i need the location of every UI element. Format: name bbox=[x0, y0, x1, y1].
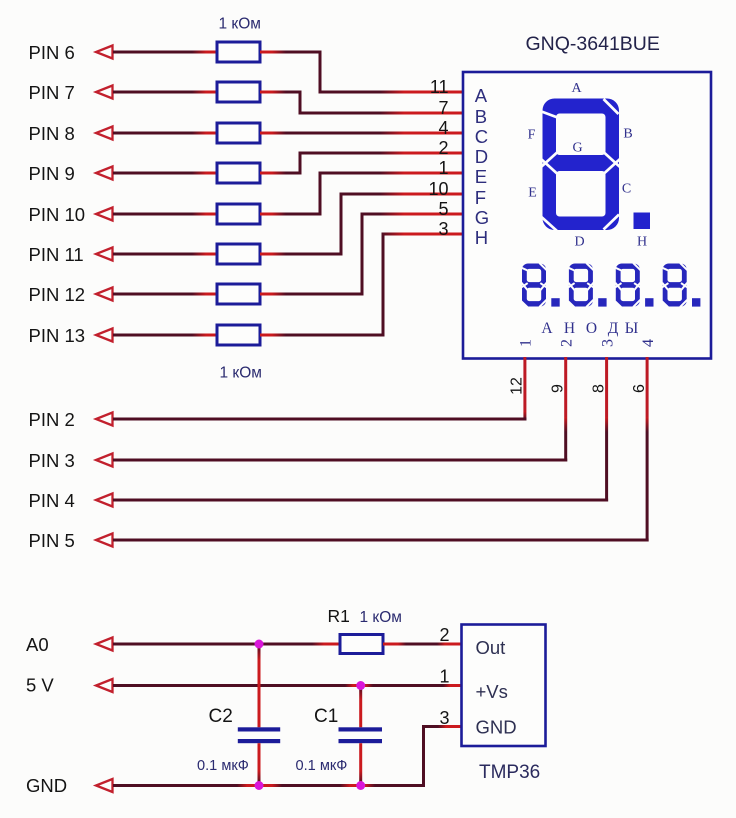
pin label PIN 8 bbox=[29, 123, 75, 144]
wire PIN 4 bbox=[113, 499, 608, 502]
svg-text:B: B bbox=[475, 106, 487, 127]
wire to display pin 10 (F) bbox=[340, 193, 464, 196]
pin number 6 (rotated) bbox=[631, 384, 648, 393]
svg-text:C2: C2 bbox=[209, 706, 233, 727]
wire vertical PIN 9 bbox=[299, 152, 302, 175]
wire A0 to junction bbox=[113, 643, 259, 646]
wire to display pin 1 (E) bbox=[319, 172, 464, 175]
label C1 bbox=[314, 706, 338, 727]
svg-text:1: 1 bbox=[518, 339, 535, 347]
svg-text:Д: Д bbox=[608, 320, 619, 337]
pin label PIN 12 bbox=[29, 284, 86, 305]
wire PIN 11 to corner bbox=[260, 253, 343, 256]
svg-text:11: 11 bbox=[430, 77, 449, 97]
pin number 11 bbox=[430, 77, 449, 97]
svg-text:Н: Н bbox=[564, 320, 575, 337]
svg-text:8: 8 bbox=[590, 384, 607, 393]
wire PIN 3 bbox=[113, 459, 567, 462]
svg-text:H: H bbox=[637, 235, 647, 250]
svg-text:PIN 3: PIN 3 bbox=[29, 450, 75, 471]
wire junction to R1 bbox=[259, 643, 340, 646]
svg-text:4: 4 bbox=[438, 118, 448, 138]
svg-text:GND: GND bbox=[26, 775, 67, 796]
svg-text:PIN 9: PIN 9 bbox=[29, 163, 75, 184]
svg-text:PIN 8: PIN 8 bbox=[29, 123, 75, 144]
decimal point H of big digit bbox=[634, 213, 651, 230]
wire to display pin 3 (H) bbox=[382, 233, 464, 236]
label C2 value bbox=[197, 758, 249, 774]
svg-text:Out: Out bbox=[476, 637, 506, 658]
wire GND to junctions bbox=[113, 784, 425, 787]
svg-text:2: 2 bbox=[438, 138, 448, 158]
segment label A bbox=[571, 81, 582, 96]
small 7-seg digit 2 bbox=[568, 263, 593, 307]
wire vertical PIN 13 bbox=[382, 233, 385, 337]
svg-text:C: C bbox=[475, 126, 488, 147]
display U1 GNQ-3641BUE title bbox=[526, 33, 660, 55]
arrow PIN 7 bbox=[96, 86, 113, 99]
pin number 3 bbox=[438, 219, 448, 239]
arrow GND bbox=[96, 779, 113, 792]
pin name Out bbox=[476, 637, 506, 658]
resistor 1 kOm row PIN 11 bbox=[217, 244, 260, 264]
wire PIN 11 to resistor bbox=[113, 253, 217, 256]
svg-text:F: F bbox=[475, 187, 486, 208]
anode index 4 (rotated) bbox=[640, 339, 657, 347]
svg-text:GNQ-3641BUE: GNQ-3641BUE bbox=[526, 33, 660, 55]
display pin letter H bbox=[475, 227, 488, 248]
pin label PIN 13 bbox=[29, 325, 86, 346]
anode index 1 (rotated) bbox=[518, 339, 535, 347]
IC U2 TMP36 body bbox=[462, 625, 546, 747]
wire PIN 13 to corner bbox=[260, 334, 385, 337]
label 1 kOm bottom bbox=[220, 365, 262, 382]
svg-text:5: 5 bbox=[438, 199, 448, 219]
svg-text:1: 1 bbox=[439, 667, 449, 687]
arrow PIN 11 bbox=[96, 248, 113, 261]
label C2 bbox=[209, 706, 233, 727]
wire to display pin 2 (D) bbox=[299, 152, 464, 155]
svg-text:PIN 13: PIN 13 bbox=[29, 325, 86, 346]
svg-text:+Vs: +Vs bbox=[476, 681, 508, 702]
svg-text:D: D bbox=[574, 235, 584, 250]
arrow A0 bbox=[96, 638, 113, 651]
svg-text:7: 7 bbox=[438, 98, 448, 118]
segment label C bbox=[622, 182, 631, 197]
7-segment digit body bbox=[541, 99, 621, 232]
small decimal point 1 bbox=[551, 298, 559, 306]
svg-text:F: F bbox=[528, 128, 536, 143]
wire vertical PIN 7 bbox=[299, 91, 302, 115]
label R1 bbox=[328, 606, 350, 626]
svg-text:A: A bbox=[475, 85, 488, 106]
svg-text:0.1 мкФ: 0.1 мкФ bbox=[197, 758, 249, 774]
resistor 1 kOm row PIN 7 bbox=[217, 82, 260, 102]
wire to display pin 5 (G) bbox=[361, 213, 464, 216]
svg-text:PIN 5: PIN 5 bbox=[29, 530, 75, 551]
svg-text:D: D bbox=[475, 146, 488, 167]
pin number 2 bbox=[438, 138, 448, 158]
pin number 2 (Out) bbox=[439, 625, 449, 645]
junction dot GND/C2 bbox=[255, 781, 264, 790]
display U1 body bbox=[463, 72, 711, 359]
svg-text:R1: R1 bbox=[328, 606, 350, 626]
display pin letter E bbox=[475, 166, 487, 187]
wire PIN 10 to resistor bbox=[113, 213, 217, 216]
wire junction to TMP36 +Vs bbox=[361, 684, 462, 687]
label TMP36 bbox=[479, 762, 540, 783]
wire vertical PIN 6 bbox=[319, 51, 322, 94]
arrow PIN 3 bbox=[96, 454, 113, 467]
svg-text:5 V: 5 V bbox=[26, 675, 54, 696]
resistor 1 kOm row PIN 6 bbox=[217, 42, 260, 62]
label 5 V bbox=[26, 675, 54, 696]
wire PIN 10 to corner bbox=[260, 213, 322, 216]
arrow PIN 9 bbox=[96, 167, 113, 180]
pin label PIN 11 bbox=[29, 244, 84, 265]
arrow PIN 5 bbox=[96, 534, 113, 547]
small 7-seg digit 1 bbox=[521, 263, 546, 307]
svg-text:PIN 11: PIN 11 bbox=[29, 244, 84, 265]
pin label PIN 9 bbox=[29, 163, 75, 184]
pin number 1 (+Vs) bbox=[439, 667, 449, 687]
segment label D bbox=[574, 235, 584, 250]
label R1 value 1 kOm bbox=[360, 609, 402, 626]
wire PIN 6 to corner bbox=[260, 51, 322, 54]
pin label PIN 10 bbox=[29, 204, 86, 225]
resistor 1 kOm row PIN 9 bbox=[217, 163, 260, 183]
arrow PIN 13 bbox=[96, 329, 113, 342]
small 7-seg digit 4 bbox=[662, 263, 687, 307]
svg-text:3: 3 bbox=[599, 339, 616, 347]
label 1 kOm top bbox=[219, 16, 261, 33]
display pin letter A bbox=[475, 85, 488, 106]
display pin letter D bbox=[475, 146, 488, 167]
arrow PIN 2 bbox=[96, 413, 113, 426]
svg-text:PIN 12: PIN 12 bbox=[29, 284, 86, 305]
pin label PIN 2 bbox=[29, 409, 75, 430]
pin label PIN 7 bbox=[29, 82, 75, 103]
svg-text:9: 9 bbox=[550, 384, 567, 393]
display pin letter F bbox=[475, 187, 486, 208]
pin name +Vs bbox=[476, 681, 508, 702]
wire to display pin 11 (A) bbox=[319, 91, 464, 94]
resistor 1 kOm row PIN 8 bbox=[217, 123, 260, 143]
wire PIN 9 to corner bbox=[260, 172, 302, 175]
wire C2 down to GND bbox=[258, 743, 261, 784]
wire GND vertical to TMP36 bbox=[422, 725, 425, 784]
svg-text:PIN 7: PIN 7 bbox=[29, 82, 75, 103]
svg-text:4: 4 bbox=[640, 339, 657, 347]
small decimal point 2 bbox=[598, 298, 606, 306]
svg-text:1 кОм: 1 кОм bbox=[219, 16, 261, 33]
pin number 5 bbox=[438, 199, 448, 219]
junction dot A0/C2 bbox=[255, 640, 264, 649]
pin number 4 bbox=[438, 118, 448, 138]
wire PIN 9 to resistor bbox=[113, 172, 217, 175]
segment label G bbox=[572, 141, 582, 156]
junction dot 5V/C1 bbox=[356, 681, 365, 690]
anode index 3 (rotated) bbox=[599, 339, 616, 347]
arrow PIN 6 bbox=[96, 46, 113, 59]
svg-text:2: 2 bbox=[559, 339, 576, 347]
svg-text:B: B bbox=[623, 127, 632, 142]
junction dot GND/C1 bbox=[356, 781, 365, 790]
wire PIN 12 to resistor bbox=[113, 293, 217, 296]
svg-text:3: 3 bbox=[438, 219, 448, 239]
wire 5V junction down to C1 bbox=[359, 687, 362, 727]
wire PIN 6 to resistor bbox=[113, 51, 217, 54]
anode index 2 (rotated) bbox=[559, 339, 576, 347]
arrow PIN 10 bbox=[96, 208, 113, 221]
arrow PIN 8 bbox=[96, 127, 113, 140]
svg-text:PIN 4: PIN 4 bbox=[29, 490, 75, 511]
svg-text:H: H bbox=[475, 227, 488, 248]
wire PIN 13 to resistor bbox=[113, 334, 217, 337]
resistor 1 kOm row PIN 13 bbox=[217, 325, 260, 345]
svg-text:О: О bbox=[586, 320, 597, 337]
display pin letter B bbox=[475, 106, 487, 127]
svg-text:PIN 6: PIN 6 bbox=[29, 42, 75, 63]
pin number 7 bbox=[438, 98, 448, 118]
svg-text:GND: GND bbox=[476, 717, 517, 738]
wire vertical PIN 12 bbox=[361, 213, 364, 296]
label GND bbox=[26, 775, 67, 796]
resistor R1 bbox=[340, 635, 383, 654]
wire PIN 12 to corner bbox=[260, 293, 364, 296]
svg-text:G: G bbox=[572, 141, 582, 156]
wire PIN 5 bbox=[113, 539, 649, 542]
small decimal point 3 bbox=[645, 298, 653, 306]
svg-text:C: C bbox=[622, 182, 631, 197]
wire display pin 6 vertical bbox=[646, 357, 649, 542]
wire vertical PIN 11 bbox=[340, 193, 343, 256]
svg-text:C1: C1 bbox=[314, 706, 338, 727]
svg-text:PIN 2: PIN 2 bbox=[29, 409, 75, 430]
label ANODY bbox=[541, 320, 638, 337]
svg-text:0.1 мкФ: 0.1 мкФ bbox=[296, 758, 348, 774]
svg-text:A0: A0 bbox=[26, 634, 49, 655]
pin label PIN 4 bbox=[29, 490, 75, 511]
pin number 9 (rotated) bbox=[550, 384, 567, 393]
svg-text:E: E bbox=[528, 186, 537, 201]
svg-text:1 кОм: 1 кОм bbox=[220, 365, 262, 382]
svg-text:3: 3 bbox=[439, 708, 449, 728]
wire C1 down to GND bbox=[359, 743, 362, 784]
arrow PIN 12 bbox=[96, 288, 113, 301]
arrow 5 V bbox=[96, 679, 113, 692]
resistor 1 kOm row PIN 10 bbox=[217, 204, 260, 224]
display pin letter G bbox=[475, 207, 489, 228]
label C1 value bbox=[296, 758, 348, 774]
svg-text:E: E bbox=[475, 166, 487, 187]
svg-text:TMP36: TMP36 bbox=[479, 762, 540, 783]
wire vertical PIN 10 bbox=[319, 172, 322, 216]
wire display pin 12 vertical bbox=[523, 357, 526, 421]
segment label B bbox=[623, 127, 632, 142]
svg-text:1: 1 bbox=[438, 158, 448, 178]
pin number 12 (rotated) bbox=[509, 377, 526, 395]
svg-text:A: A bbox=[571, 81, 582, 96]
pin label PIN 5 bbox=[29, 530, 75, 551]
svg-text:1 кОм: 1 кОм bbox=[360, 609, 402, 626]
wire display pin 9 vertical bbox=[564, 357, 567, 462]
wire PIN 7 to resistor bbox=[113, 91, 217, 94]
wire PIN 8 to resistor bbox=[113, 132, 217, 135]
pin number 8 (rotated) bbox=[590, 384, 607, 393]
segment label F bbox=[528, 128, 536, 143]
segment label H bbox=[637, 235, 647, 250]
svg-text:10: 10 bbox=[428, 179, 448, 199]
wire A0 junction down to C2 bbox=[258, 645, 261, 727]
capacitor C1 bbox=[339, 727, 383, 743]
resistor 1 kOm row PIN 12 bbox=[217, 284, 260, 304]
wire R1 to TMP36 Out bbox=[383, 643, 462, 646]
wire to display pin 7 (B) bbox=[299, 112, 464, 115]
segment label E bbox=[528, 186, 537, 201]
wire PIN 7 to corner bbox=[260, 91, 302, 94]
wire to TMP36 GND pin bbox=[422, 725, 462, 728]
arrow PIN 4 bbox=[96, 494, 113, 507]
display pin letter C bbox=[475, 126, 488, 147]
pin number 3 (GND) bbox=[439, 708, 449, 728]
svg-text:12: 12 bbox=[509, 377, 526, 395]
small 7-seg digit 3 bbox=[615, 263, 640, 307]
svg-text:PIN 10: PIN 10 bbox=[29, 204, 86, 225]
small decimal point 4 bbox=[692, 298, 700, 306]
wire 5V to junction bbox=[113, 684, 361, 687]
pin number 1 bbox=[438, 158, 448, 178]
wire PIN 2 bbox=[113, 418, 526, 421]
label A0 bbox=[26, 634, 49, 655]
wire display pin 8 vertical bbox=[605, 357, 608, 502]
svg-text:G: G bbox=[475, 207, 489, 228]
svg-text:А: А bbox=[541, 320, 553, 337]
pin label PIN 6 bbox=[29, 42, 75, 63]
svg-text:2: 2 bbox=[439, 625, 449, 645]
pin number 10 bbox=[428, 179, 448, 199]
pin label PIN 3 bbox=[29, 450, 75, 471]
svg-text:6: 6 bbox=[631, 384, 648, 393]
capacitor C2 bbox=[238, 727, 280, 743]
pin name GND bbox=[476, 717, 517, 738]
svg-text:Ы: Ы bbox=[625, 320, 639, 337]
wire PIN 8 to display pin 4 bbox=[260, 132, 463, 135]
